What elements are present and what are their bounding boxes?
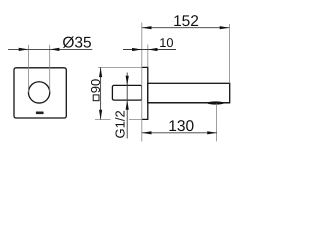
KEUCO logo [36,112,44,115]
square symbol [93,95,99,101]
Ø35 arrow right [50,48,60,51]
10 dimension [147,45,149,68]
svg-text:130: 130 [168,118,194,135]
Ø35 extension lines [28,45,49,92]
G1/2 dimension [126,73,128,139]
Ø35 arrow left [19,48,29,51]
square-90 dimension [98,66,142,68]
side plate [142,67,148,119]
Ø35 dimension line [8,48,92,50]
svg-text:90: 90 [88,79,103,93]
front plate [14,68,66,118]
knob circle [28,82,49,103]
svg-text:10: 10 [159,35,173,50]
outlet bump [207,101,224,104]
130 dimension [216,104,218,142]
svg-text:Ø35: Ø35 [62,34,91,51]
nipple G1/2 [112,85,141,100]
spout tube [148,83,230,103]
wall line [141,23,143,142]
svg-text:152: 152 [173,13,199,30]
152 dimension [228,24,230,83]
svg-text:G1/2: G1/2 [113,110,128,138]
